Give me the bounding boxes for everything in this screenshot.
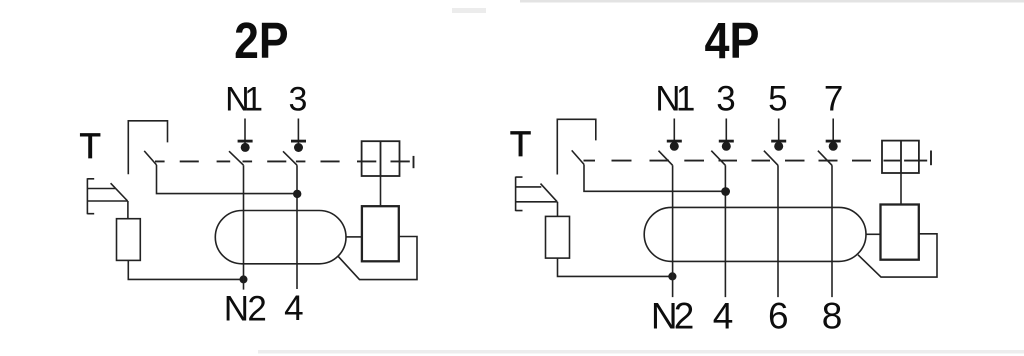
svg-text:N2: N2 <box>651 296 695 337</box>
handle end bar <box>413 156 415 168</box>
junction dot lower left <box>668 272 676 280</box>
contact blade pole N1 <box>659 151 673 166</box>
svg-text:N1: N1 <box>655 80 695 119</box>
wire pole 3 vertical <box>724 165 726 297</box>
test button SB actuator bracket <box>87 178 127 214</box>
resistor R2 <box>546 216 570 258</box>
contact blade pole N1 <box>229 151 244 165</box>
test contact blade <box>541 184 558 202</box>
wire pole 5 vertical <box>777 165 779 297</box>
terminal arrow 3 <box>297 119 299 144</box>
svg-text:4P: 4P <box>705 12 760 69</box>
contact blade pole 3 <box>711 151 725 166</box>
wire pole N vertical <box>243 165 245 289</box>
trip coil K2 <box>881 205 919 260</box>
contact blade test pole <box>144 151 156 165</box>
toroid current transformer <box>644 207 866 261</box>
junction dot lower left <box>240 275 248 283</box>
contact blade test pole <box>572 150 584 164</box>
terminal arrow 5 <box>778 119 780 144</box>
test button SB actuator bracket <box>516 177 558 212</box>
wire pole 7 vertical <box>831 165 833 297</box>
wire pole 3 vertical <box>296 165 298 289</box>
svg-text:4: 4 <box>713 296 734 337</box>
faint scan smudge bottom edge <box>258 350 1024 354</box>
toroid current transformer <box>215 211 346 264</box>
wire test-loop staple <box>128 121 167 174</box>
wire coil return to toroid <box>338 237 417 280</box>
wire test-loop staple <box>557 119 596 174</box>
svg-text:7: 7 <box>824 80 843 119</box>
wire relay to coil <box>900 173 902 205</box>
svg-text:2P: 2P <box>234 12 289 69</box>
svg-text:T: T <box>80 127 101 166</box>
mechanical linkage dashed line <box>584 160 928 162</box>
svg-text:N1: N1 <box>225 80 263 118</box>
resistor R1 <box>117 219 141 261</box>
handle end bar <box>930 151 932 166</box>
svg-text:4: 4 <box>284 289 303 328</box>
wire button to resistor <box>557 202 559 217</box>
relay release U2 square <box>882 141 919 173</box>
wire resistor to N wire <box>128 260 243 279</box>
svg-text:8: 8 <box>822 296 843 337</box>
wire pole N vertical <box>672 165 674 297</box>
terminal arrow 3 <box>725 119 727 144</box>
mechanical linkage dashed line <box>155 160 410 162</box>
contact blade pole 5 <box>764 151 778 166</box>
test contact blade <box>111 183 128 201</box>
wire resistor to N wire <box>558 258 673 276</box>
wire toroid to coil <box>866 233 881 235</box>
wire relay to coil <box>380 176 382 206</box>
svg-text:N2: N2 <box>224 290 267 329</box>
svg-text:3: 3 <box>289 80 308 118</box>
relay center line <box>900 141 902 173</box>
terminal arrow 7 <box>832 119 834 144</box>
trip coil K1 <box>362 206 399 261</box>
junction dot pole3 tap <box>293 190 301 198</box>
junction dot pole3 tap <box>721 187 730 196</box>
faint scan smudge top edge <box>520 0 1024 3</box>
svg-text:5: 5 <box>768 80 787 119</box>
svg-text:T: T <box>510 125 531 164</box>
contact blade pole 3 <box>283 151 297 165</box>
contact blade pole 7 <box>818 151 832 166</box>
svg-text:3: 3 <box>716 80 735 119</box>
wire toroid to coil <box>346 236 362 238</box>
svg-text:6: 6 <box>768 296 789 337</box>
relay center line <box>380 141 382 176</box>
wire button to resistor <box>127 201 129 219</box>
relay release U1 square <box>362 141 400 176</box>
wire test pole to pole3 tap <box>157 165 298 194</box>
terminal arrow N1 <box>673 119 675 144</box>
wire test pole to pole3 tap <box>584 164 725 191</box>
terminal arrow N1 <box>244 119 246 144</box>
wire coil return to toroid <box>858 234 937 277</box>
